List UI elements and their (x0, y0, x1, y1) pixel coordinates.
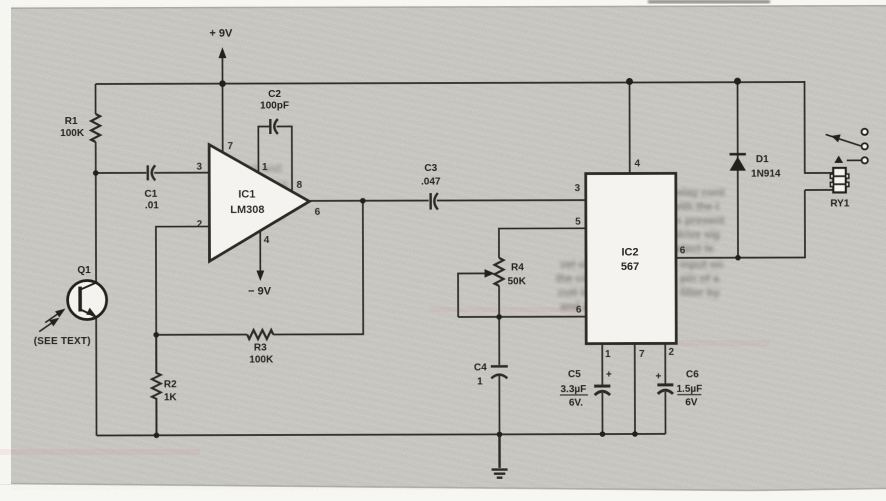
svg-text:+: + (606, 370, 612, 381)
svg-text:R3: R3 (254, 343, 267, 354)
wire IC2 pin2 (664, 343, 666, 433)
svg-text:C1: C1 (144, 189, 157, 200)
svg-text:(SEE TEXT): (SEE TEXT) (34, 336, 91, 347)
svg-text:100K: 100K (249, 354, 274, 365)
svg-text:filter by: filter by (680, 287, 721, 299)
relay contact terminals (862, 129, 868, 164)
relay NO contact (834, 155, 861, 162)
svg-text:7: 7 (227, 141, 233, 152)
resistor R1 (91, 114, 100, 142)
+9V arrow (218, 47, 226, 58)
ghost bleed-through text (556, 187, 725, 313)
svg-text:+ 9V: + 9V (209, 28, 233, 40)
svg-text:1: 1 (605, 349, 611, 360)
junction IC1 output node (360, 198, 366, 204)
junction C4 / ground at rail (497, 432, 503, 438)
ground (491, 434, 507, 477)
wire pin 7 stub (222, 84, 224, 152)
wire C4 branch (498, 317, 500, 434)
panel edge shading (11, 6, 886, 9)
junction D1 at IC2 output wire (735, 255, 741, 261)
svg-text:input on: input on (680, 259, 724, 271)
top edge smudge (648, 0, 770, 4)
svg-text:567: 567 (621, 261, 639, 273)
wire left rail to Q1 (95, 142, 97, 282)
svg-text:1: 1 (477, 376, 483, 387)
svg-text:2: 2 (668, 347, 674, 358)
pink scan streaks (430, 307, 620, 312)
capacitor C2 (270, 119, 278, 134)
svg-text:8: 8 (297, 180, 303, 191)
svg-text:C3: C3 (424, 163, 437, 174)
svg-text:4: 4 (634, 158, 640, 169)
potentiometer R4 (494, 258, 503, 286)
svg-text:D1: D1 (756, 154, 769, 165)
wire feedback rail (156, 201, 363, 335)
svg-text:C4: C4 (474, 362, 487, 373)
junction R4 wiper node (496, 314, 502, 320)
svg-text:R4: R4 (511, 262, 524, 273)
svg-text:IC2: IC2 (621, 246, 638, 258)
svg-text:2: 2 (197, 219, 203, 230)
diode D1 branch (737, 81, 739, 257)
junction pin 7 at rail (632, 431, 638, 437)
wire IC2 pin5 to R4 (499, 228, 586, 258)
svg-text:5: 5 (575, 217, 581, 228)
wire bottom rail (96, 434, 665, 436)
R4 wiper arrowhead (485, 269, 495, 277)
svg-text:pin of a: pin of a (680, 273, 720, 285)
svg-text:R2: R2 (164, 379, 177, 390)
svg-text:IC1: IC1 (238, 189, 255, 201)
-9V arrow (256, 271, 264, 282)
svg-text:7: 7 (639, 349, 645, 360)
wire IC2 pin6 (458, 316, 586, 318)
svg-text:C5: C5 (568, 369, 581, 380)
svg-text:1: 1 (262, 162, 268, 173)
svg-text:C2: C2 (268, 89, 281, 100)
capacitor C6 (657, 385, 673, 394)
wire IC2 pin1 (601, 344, 603, 434)
wire left rail upper (95, 84, 97, 114)
junction R2 at ground rail (154, 433, 160, 439)
svg-text:LM308: LM308 (230, 204, 264, 216)
svg-text:4: 4 (264, 235, 270, 246)
wire pin 3 input (96, 172, 209, 174)
capacitor C3 (431, 193, 438, 210)
wire relay branch top (805, 81, 833, 173)
svg-text:6V.: 6V. (569, 398, 583, 409)
resistor R3 (247, 330, 273, 339)
svg-text:+: + (655, 371, 661, 382)
svg-text:RY1: RY1 (830, 198, 850, 209)
wire IC2 pin4 (629, 81, 631, 173)
junction IC2 pin 4 at top rail (626, 78, 633, 85)
wire Q1 emitter to bottom rail (95, 317, 97, 435)
svg-text:3.3µF: 3.3µF (560, 384, 586, 395)
svg-text:1.5µF: 1.5µF (676, 384, 702, 395)
svg-text:6: 6 (315, 207, 321, 218)
capacitor C2 loop (258, 126, 292, 192)
svg-text:Q1: Q1 (77, 265, 91, 276)
svg-text:50K: 50K (508, 276, 527, 287)
wire relay coil bottom stub (805, 189, 833, 191)
svg-text:.01: .01 (145, 200, 159, 211)
svg-text:R1: R1 (65, 116, 78, 127)
wire pin 2 (156, 226, 210, 334)
wire IC2 pin8 output (676, 190, 805, 258)
svg-text:100pF: 100pF (260, 100, 289, 111)
wire IC2 pin7 (634, 343, 636, 433)
svg-text:6V: 6V (685, 397, 698, 408)
wire R4 wiper arm (458, 273, 485, 317)
transistor Q1 (68, 280, 107, 319)
svg-text:6: 6 (680, 245, 686, 256)
wire pin 4 to -9V (259, 231, 261, 272)
capacitor C4 (491, 366, 508, 378)
svg-text:1N914: 1N914 (751, 169, 781, 180)
svg-text:1K: 1K (164, 392, 178, 403)
capacitor C5 (594, 386, 610, 395)
relay armature (826, 134, 861, 146)
IC2 body (586, 173, 676, 343)
junction D1 at top rail (734, 78, 741, 85)
resistor R2 (152, 335, 161, 436)
svg-text:6: 6 (576, 305, 582, 316)
svg-text:− 9V: − 9V (248, 285, 272, 297)
junction C5 at rail (600, 431, 606, 437)
light arrows (39, 310, 64, 332)
svg-text:.047: .047 (421, 177, 441, 188)
svg-text:100K: 100K (60, 128, 85, 139)
junction R1 / C1 node (93, 170, 99, 176)
junction IC1 pin 2 / R2 / R3 node (153, 332, 159, 338)
wire +9V stub (221, 57, 223, 84)
svg-text:3: 3 (196, 162, 202, 173)
capacitor C1 (148, 165, 156, 180)
wire R4 bottom (498, 286, 500, 317)
wire op-amp output (309, 199, 585, 202)
svg-text:3: 3 (575, 183, 581, 194)
relay RY1 coil (830, 168, 848, 193)
diode D1 (730, 154, 746, 171)
svg-text:C6: C6 (686, 369, 699, 380)
junction +9V supply node (219, 80, 226, 87)
op-amp U1 triangle (209, 144, 309, 261)
left white margin (0, 0, 11, 484)
wire top rail (96, 82, 805, 84)
